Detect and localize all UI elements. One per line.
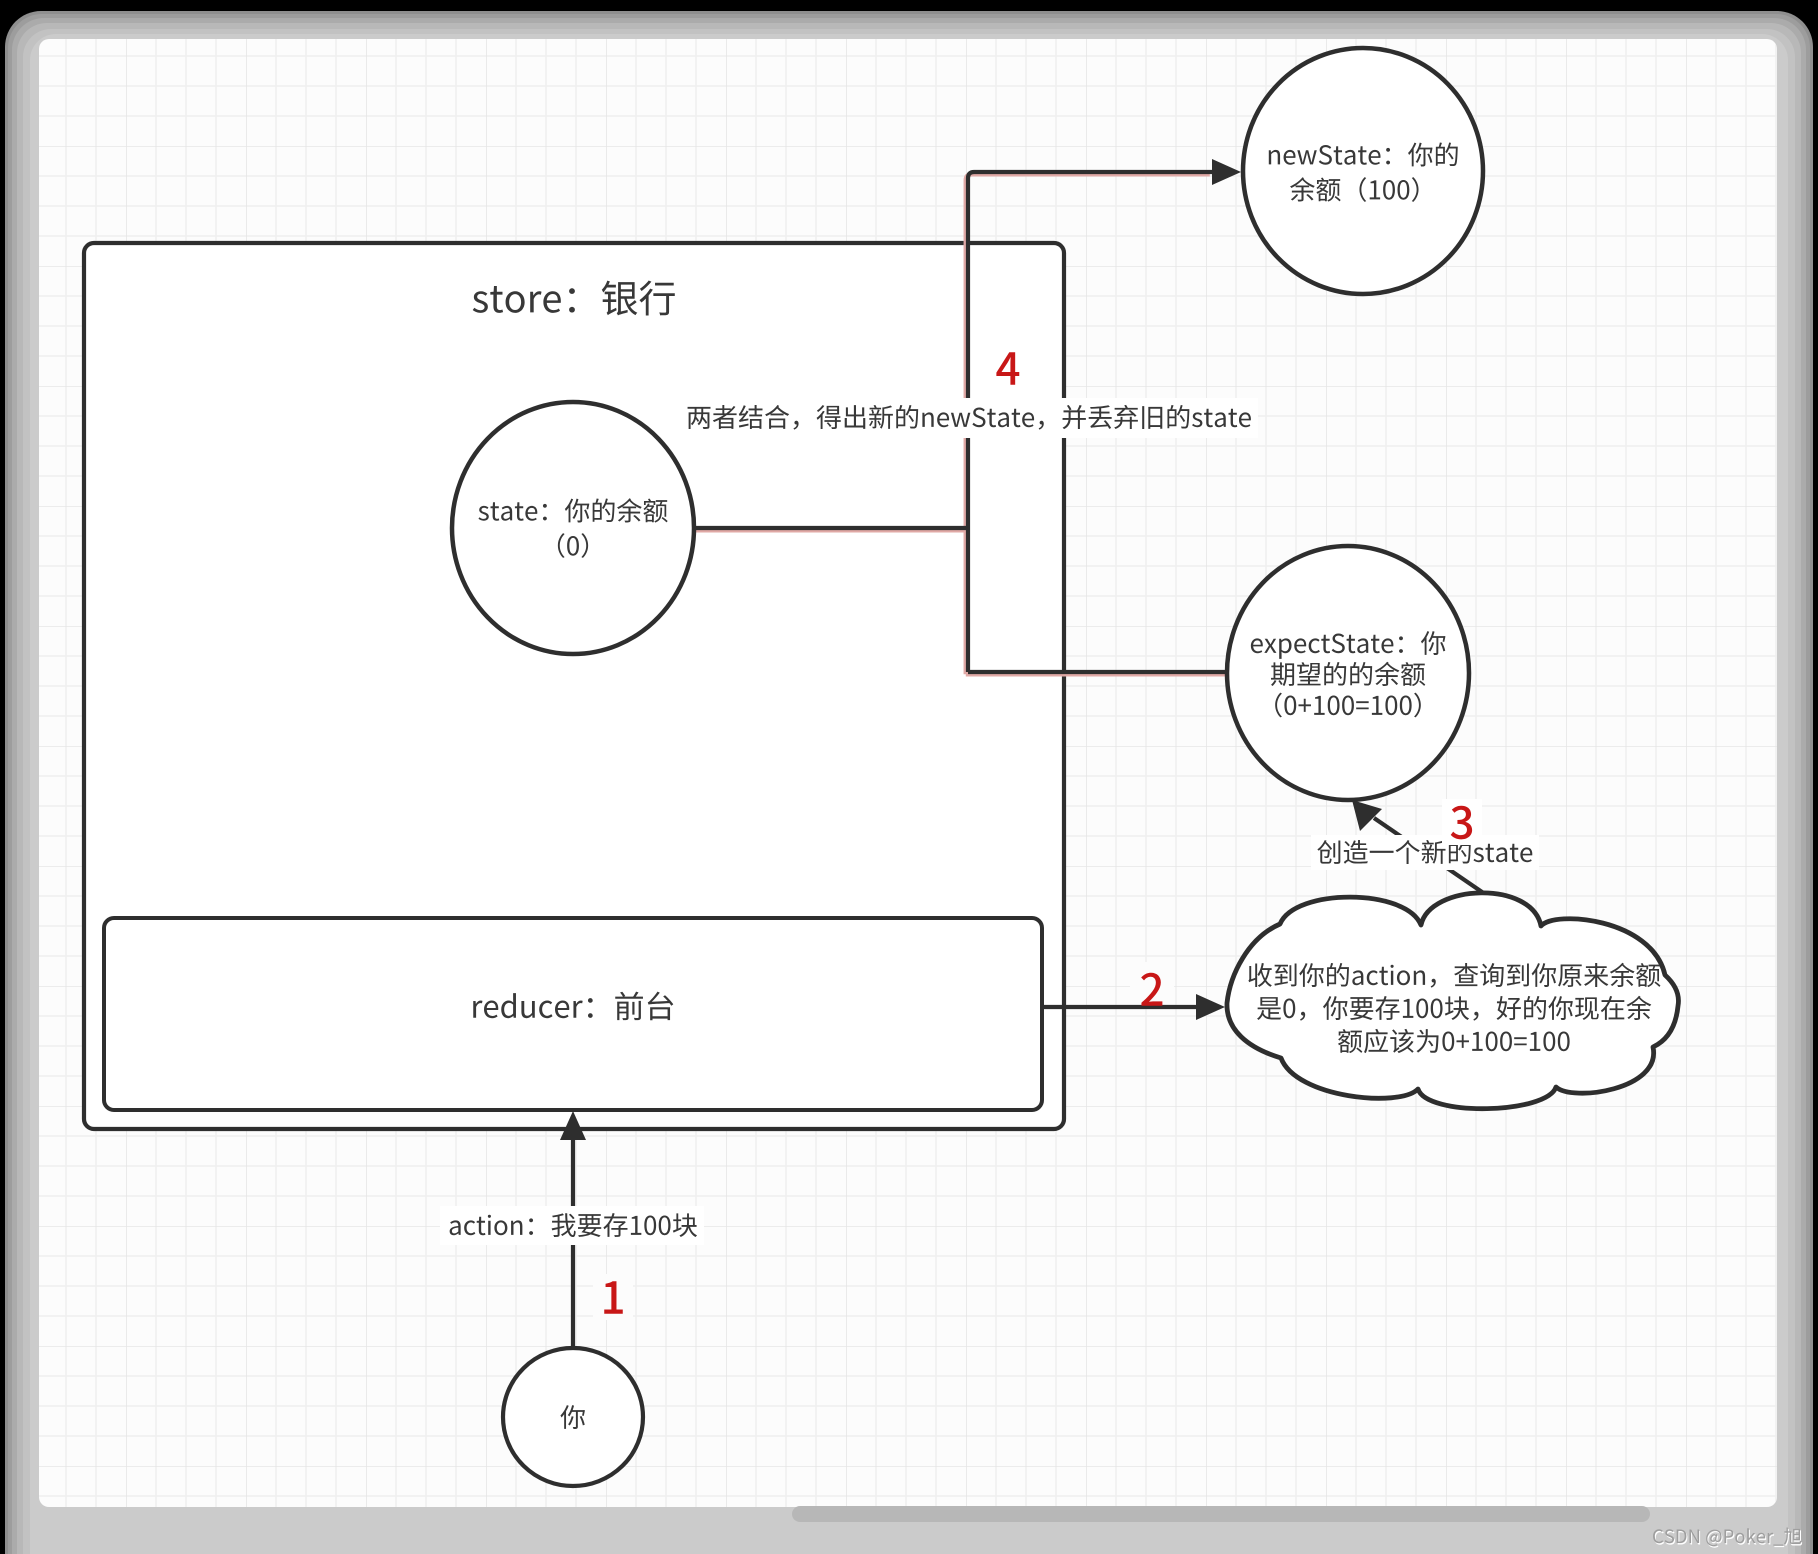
wire: action arrow from you-circle up to reducer xyxy=(571,1140,575,1348)
label: store title xyxy=(473,291,488,313)
reducer box xyxy=(104,918,1042,1110)
label: reducer title xyxy=(473,1001,482,1018)
arrowhead into cloud xyxy=(1196,994,1225,1020)
scrollbar xyxy=(792,1506,1650,1522)
node: newState circle xyxy=(1243,48,1483,294)
label: step number 2 xyxy=(1130,962,1174,1004)
wire: cloud up-left to expectState xyxy=(1374,818,1501,905)
watermark CSDN xyxy=(1654,1531,1664,1545)
store container rectangle xyxy=(84,243,1064,1129)
label: action note with white backing xyxy=(440,1206,704,1245)
label: you circle text xyxy=(560,1405,585,1429)
node: you circle xyxy=(503,1348,643,1486)
label: step number 4 xyxy=(996,352,1019,384)
label: newState circle text xyxy=(1269,150,1280,164)
label: create-new-state note with white backing xyxy=(1311,835,1539,870)
label: merge note (两者结合) with white backing xyxy=(680,398,1258,438)
label: expectState circle text xyxy=(1251,638,1263,653)
wire: state/expectState merge to newState, red companion line xyxy=(692,174,1228,674)
arrowhead into expectState xyxy=(1352,800,1382,831)
arrowhead into newState xyxy=(1212,159,1241,185)
cloud: reducer reply bubble xyxy=(1227,893,1679,1109)
label: step number 3 xyxy=(1442,799,1482,845)
arrowhead into reducer xyxy=(560,1111,586,1140)
node: state circle xyxy=(452,402,694,654)
node: expectState circle xyxy=(1227,546,1469,800)
label: cloud text xyxy=(1248,963,1271,987)
label: state circle text xyxy=(478,506,488,521)
wire: reducer to cloud xyxy=(1042,1005,1196,1009)
label: step number 1 xyxy=(593,1274,633,1320)
wire: state to junction, vertical trunk, arms to newState and expectState xyxy=(694,172,1230,672)
